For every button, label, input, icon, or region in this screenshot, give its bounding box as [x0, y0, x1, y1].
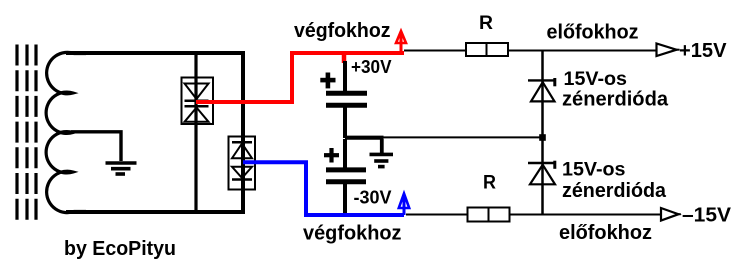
svg-text:–15V: –15V [682, 205, 732, 227]
svg-text:zénerdióda: zénerdióda [562, 89, 669, 111]
wire: +rail thin to resistor and output [404, 50, 657, 52]
wire: zener column [541, 50, 544, 214]
svg-text:végfokhoz: végfokhoz [294, 20, 391, 42]
wire: middle ground rail (thick part) [345, 136, 384, 140]
wire: bottom AC rail [66, 210, 245, 214]
diode D1 (anode top, cathode bar middle) [185, 84, 209, 100]
wire: rectifier column 1 [194, 53, 197, 212]
plus sign C2 [324, 148, 339, 163]
svg-text:előfokhoz: előfokhoz [559, 222, 652, 244]
resistor R1 [466, 43, 508, 56]
zener diode ZD1 [528, 78, 555, 101]
svg-text:zénerdióda: zénerdióda [562, 180, 667, 202]
output arrow +15V [657, 44, 680, 57]
svg-text:15V-os: 15V-os [562, 160, 626, 181]
svg-text:+15V: +15V [679, 40, 727, 62]
diode D3 (cathode bar top, anode middle) [232, 141, 252, 144]
resistor R2 [468, 208, 510, 222]
arrow marker +30V (red, up) [396, 31, 406, 53]
arrow marker -30V (blue, up) [399, 194, 409, 216]
ground (transformer center tap) [106, 163, 137, 174]
node: junction zener/ground rail [539, 134, 546, 141]
plus sign C1 [320, 73, 335, 89]
diode D2 (anode bottom, cathode bar middle) [185, 105, 209, 108]
rectifier box 1 (positive pair) [182, 78, 214, 125]
svg-text:végfokhoz: végfokhoz [303, 223, 402, 245]
capacitor C1 [326, 61, 367, 138]
wire: rectifier column 2 [241, 53, 245, 212]
wire: center tap [71, 132, 121, 161]
svg-text:R: R [479, 13, 493, 34]
wire: -rail thin to resistor and output [406, 214, 661, 216]
output arrow -15V [661, 208, 681, 221]
capacitor C2 [326, 139, 366, 215]
svg-text:by EcoPityu: by EcoPityu [64, 238, 176, 260]
svg-text:R: R [483, 173, 496, 194]
svg-text:15V-os: 15V-os [564, 69, 628, 90]
transformer core laminations (dashed lines) [17, 45, 36, 221]
wire -30V (blue) [243, 162, 404, 215]
transformer T1 secondary winding [46, 52, 86, 212]
zener diode ZD2 [528, 161, 555, 185]
wire +30V (red) [196, 53, 404, 102]
rectifier box 2 (negative pair) [229, 137, 256, 190]
wire: middle ground rail (thin part) [383, 136, 542, 138]
diode D4 (anode middle, cathode bar bottom) [232, 167, 252, 178]
svg-text:+30V: +30V [351, 57, 392, 77]
red stub to capacitor C1 [342, 55, 347, 63]
svg-text:előfokhoz: előfokhoz [547, 22, 639, 44]
ground (filter midpoint) [370, 139, 394, 167]
svg-text:-30V: -30V [354, 188, 392, 208]
wire: top AC rail [66, 51, 245, 55]
